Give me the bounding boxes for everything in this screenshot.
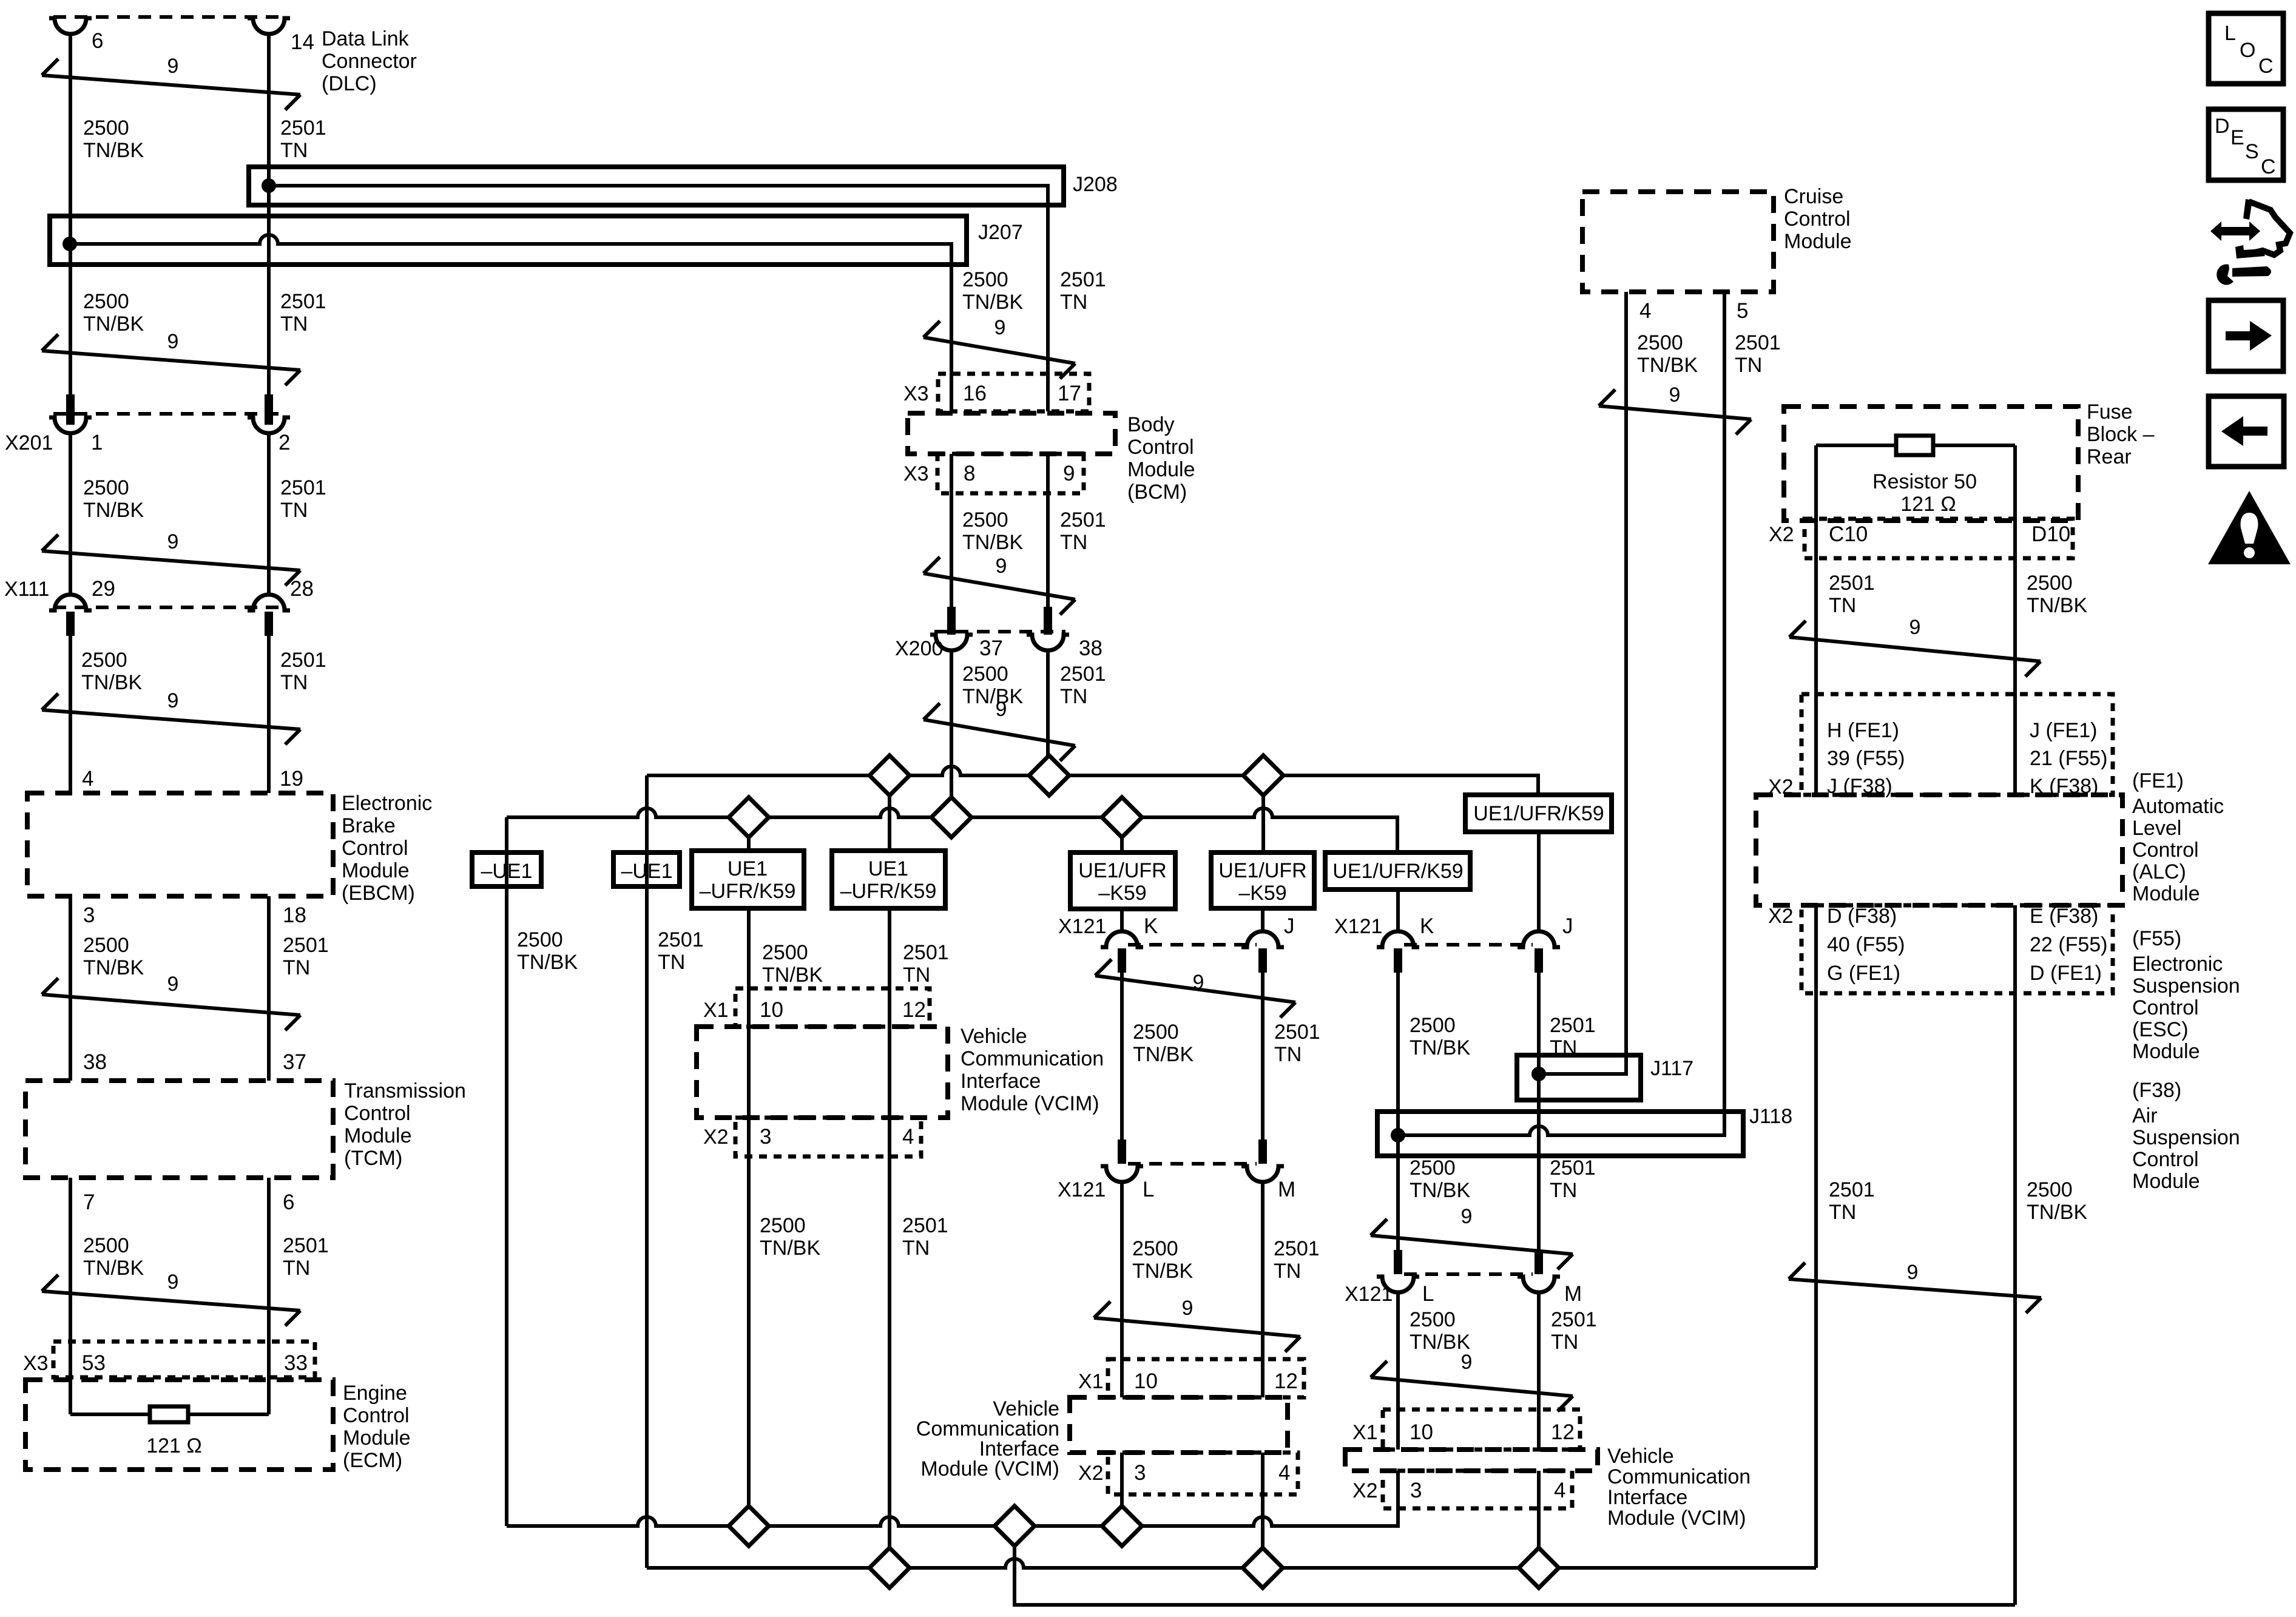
connector X201 dashed line xyxy=(53,412,286,416)
svg-text:K: K xyxy=(1144,914,1158,938)
svg-text:UE1: UE1 xyxy=(728,857,768,880)
splice diamond B1 at 1849 xyxy=(1102,1506,1142,1546)
svg-text:H (FE1): H (FE1) xyxy=(1827,719,1899,742)
svg-text:Engine: Engine xyxy=(343,1382,407,1405)
svg-text:Communication: Communication xyxy=(961,1047,1104,1070)
svg-text:2: 2 xyxy=(279,431,290,454)
connector X1 VCIM1 dotted box xyxy=(735,988,930,1027)
svg-text:2500: 2500 xyxy=(962,268,1008,291)
svg-text:–UE1: –UE1 xyxy=(481,860,532,883)
svg-text:TN: TN xyxy=(280,671,308,694)
svg-text:TN: TN xyxy=(903,964,930,987)
svg-text:9: 9 xyxy=(996,698,1007,721)
connector X121 M cup xyxy=(1241,1166,1284,1182)
net label box UE1/UFR/K59 lower xyxy=(1325,852,1470,890)
svg-text:Connector: Connector xyxy=(322,50,417,73)
connector DLC dashed line xyxy=(53,15,286,19)
connector X2 fuse block dotted box xyxy=(1805,519,2073,558)
svg-text:TN/BK: TN/BK xyxy=(83,499,144,522)
svg-text:D (FE1): D (FE1) xyxy=(2030,962,2102,985)
splice diamond upper bus at 1729 xyxy=(1029,755,1069,795)
svg-text:Electronic: Electronic xyxy=(2132,953,2223,976)
svg-text:Control: Control xyxy=(1127,436,1194,459)
connector X200 pin 37 cup xyxy=(930,635,973,650)
connector X200 dashed line xyxy=(934,630,1065,633)
svg-text:TN: TN xyxy=(283,1257,310,1280)
svg-text:Electronic: Electronic xyxy=(342,792,432,815)
svg-text:121 Ω: 121 Ω xyxy=(1900,493,1956,516)
wire box4 to X121 J xyxy=(1261,908,1264,931)
icon arrow left box xyxy=(2209,396,2284,467)
svg-text:–K59: –K59 xyxy=(1238,882,1286,905)
svg-text:TN: TN xyxy=(1060,685,1087,708)
wire 2501 TN DLC to X201 xyxy=(267,34,271,396)
connector X2 VCIM2 dotted box xyxy=(1108,1453,1298,1494)
svg-text:2500: 2500 xyxy=(2027,1178,2073,1201)
svg-text:2500: 2500 xyxy=(1637,331,1683,354)
svg-text:X111: X111 xyxy=(4,578,49,601)
svg-text:2500: 2500 xyxy=(762,941,808,964)
svg-text:TN/BK: TN/BK xyxy=(83,1257,144,1280)
wire cruise pin 4 down to J117 xyxy=(1624,292,1628,1074)
svg-text:J207: J207 xyxy=(978,221,1023,244)
svg-text:Module: Module xyxy=(344,1124,412,1147)
wire 2500 TN/BK BCM to X200 xyxy=(950,454,953,608)
twisted pair symbol 9 (above VCIM3) xyxy=(1371,1377,1573,1396)
svg-text:TN/BK: TN/BK xyxy=(1410,1036,1470,1059)
svg-text:2500: 2500 xyxy=(83,476,129,499)
splice diamond lower bus at 1849 xyxy=(1102,797,1142,837)
bus B2 2501 bottom horizontal xyxy=(647,1559,1816,1568)
svg-text:TN: TN xyxy=(283,956,310,979)
connector X201 pin 2 stub xyxy=(265,394,273,425)
wire 2501 TN EBCM to TCM xyxy=(267,896,271,1081)
wire 2501 TN fuse to ALC xyxy=(1814,445,1818,795)
svg-text:(ESC): (ESC) xyxy=(2132,1018,2189,1041)
svg-text:Interface: Interface xyxy=(961,1070,1041,1093)
junction J117 dot xyxy=(1531,1067,1546,1081)
svg-text:2501: 2501 xyxy=(283,934,329,957)
svg-text:TN/BK: TN/BK xyxy=(1410,1179,1470,1202)
svg-text:Interface: Interface xyxy=(1607,1486,1687,1509)
module TCM dashed box xyxy=(25,1081,333,1178)
wire box6 to X121 J right xyxy=(1537,832,1541,931)
module VCIM1 dashed box xyxy=(697,1027,948,1118)
connector X111 pin 29 cup xyxy=(49,595,92,610)
wire 2501 TN X201 to X111 xyxy=(267,433,271,595)
svg-text:10: 10 xyxy=(1134,1369,1158,1393)
splice diamond upper bus at 1466 xyxy=(869,755,910,795)
svg-text:Vehicle: Vehicle xyxy=(1607,1445,1674,1468)
wire 2500 TN/BK TCM to ECM xyxy=(69,1178,72,1414)
svg-text:TN/BK: TN/BK xyxy=(962,291,1023,314)
svg-text:X2: X2 xyxy=(1768,905,1794,928)
junction J207 inner wire with hop xyxy=(70,235,951,265)
svg-text:X121: X121 xyxy=(1058,915,1106,938)
twisted pair symbol 9 (cruise) xyxy=(1599,406,1751,419)
wire 2500 TN/BK X121K right down xyxy=(1396,973,1400,1112)
svg-text:Vehicle: Vehicle xyxy=(961,1025,1027,1048)
svg-text:28: 28 xyxy=(290,577,314,601)
connector X200 pin 38 stub xyxy=(1044,607,1052,635)
wire 2501 TN BCM to X200 xyxy=(1046,454,1050,608)
svg-text:9: 9 xyxy=(1461,1205,1473,1228)
wire 2500 TN/BK box1 to VCIM1 xyxy=(747,908,751,1526)
svg-text:J208: J208 xyxy=(1073,173,1118,196)
svg-text:TN/BK: TN/BK xyxy=(760,1237,820,1260)
svg-text:2500: 2500 xyxy=(83,934,129,957)
svg-text:TN: TN xyxy=(280,139,308,162)
svg-text:M: M xyxy=(1278,1178,1295,1201)
svg-text:39 (F55): 39 (F55) xyxy=(1827,747,1905,770)
svg-text:7: 7 xyxy=(83,1190,95,1214)
svg-text:Suspension: Suspension xyxy=(2132,1126,2240,1149)
svg-text:9: 9 xyxy=(1909,616,1921,639)
connector X1 VCIM2 dotted box xyxy=(1108,1359,1304,1397)
svg-text:Fuse: Fuse xyxy=(2087,400,2133,424)
connector X121 M right stub xyxy=(1535,1250,1543,1274)
svg-text:(F55): (F55) xyxy=(2132,927,2181,950)
bus 2501 upper horizontal xyxy=(647,766,1538,795)
wire VCIM2 pin4 to bus B2 xyxy=(1261,1453,1264,1568)
connector X121 K cup xyxy=(1101,931,1143,947)
module ALC dashed box xyxy=(1756,795,2122,905)
svg-text:X121: X121 xyxy=(1058,1178,1106,1201)
svg-text:C10: C10 xyxy=(1829,522,1868,546)
connector X121 L stub xyxy=(1118,1139,1126,1164)
connector X121 K right stub xyxy=(1394,948,1402,973)
wire cruise pin 5 down to J118 xyxy=(1723,292,1726,1135)
svg-text:UE1/UFR/K59: UE1/UFR/K59 xyxy=(1473,802,1604,825)
svg-text:TN/BK: TN/BK xyxy=(1637,354,1698,377)
svg-text:2500: 2500 xyxy=(1410,1014,1456,1037)
svg-text:TN: TN xyxy=(1060,291,1087,314)
svg-text:2501: 2501 xyxy=(658,928,704,951)
svg-text:D10: D10 xyxy=(2031,522,2070,546)
wire UE1-UFR/K59 stub 2 (2501) xyxy=(888,775,891,851)
connector X121 J right stub xyxy=(1535,948,1543,973)
module Fuse Block Rear dashed box xyxy=(1784,407,2078,521)
connector X121 K right cup xyxy=(1377,931,1419,947)
junction J117 box xyxy=(1517,1055,1641,1100)
wire resistor top right xyxy=(1933,444,2015,447)
svg-text:9: 9 xyxy=(167,689,179,712)
svg-text:–UE1: –UE1 xyxy=(621,860,672,883)
svg-text:(EBCM): (EBCM) xyxy=(342,882,415,905)
svg-text:6: 6 xyxy=(92,29,103,53)
twisted pair symbol 9 (below X201) xyxy=(42,551,300,570)
svg-text:9: 9 xyxy=(1063,462,1075,485)
svg-text:C: C xyxy=(2258,55,2274,78)
connector X121 J stub xyxy=(1258,948,1267,973)
bus line3 2500 link to air suspension xyxy=(1015,1526,2015,1605)
svg-text:X2: X2 xyxy=(1352,1479,1378,1502)
svg-text:(TCM): (TCM) xyxy=(344,1147,402,1170)
svg-text:Control: Control xyxy=(2132,1148,2199,1171)
wire 2500 TN/BK through J118 xyxy=(1396,1112,1400,1250)
svg-text:L: L xyxy=(1422,1282,1434,1306)
svg-text:9: 9 xyxy=(167,55,179,78)
svg-text:TN: TN xyxy=(658,951,685,974)
svg-text:Control: Control xyxy=(342,837,408,860)
svg-text:29: 29 xyxy=(92,577,115,601)
connector X2 VCIM1 dotted box xyxy=(735,1118,921,1156)
svg-text:2501: 2501 xyxy=(1551,1308,1597,1331)
svg-text:9: 9 xyxy=(996,555,1007,578)
wire 2500 TN/BK fuse to ALC xyxy=(2013,445,2017,795)
connector X121 J right cup xyxy=(1518,931,1560,947)
svg-text:O: O xyxy=(2240,39,2255,62)
svg-text:2501: 2501 xyxy=(280,476,326,499)
connector X121 L right stub xyxy=(1394,1250,1402,1274)
connector X121 L/M dashed line middle xyxy=(1128,1162,1257,1166)
svg-text:L: L xyxy=(1143,1178,1154,1201)
connector X121 L cup xyxy=(1101,1166,1143,1182)
svg-text:X3: X3 xyxy=(903,462,929,485)
icon arrow right box xyxy=(2209,300,2283,371)
wire 2500 TN/BK X111 to EBCM xyxy=(69,636,72,793)
svg-text:9: 9 xyxy=(1907,1261,1919,1284)
svg-text:Air: Air xyxy=(2132,1104,2158,1127)
splice diamond lower bus at 1568 xyxy=(931,797,971,837)
svg-text:TN/BK: TN/BK xyxy=(83,956,144,979)
svg-text:2500: 2500 xyxy=(760,1214,806,1237)
wire ECM internal resistor left xyxy=(70,1413,150,1416)
twisted pair symbol 9 (below BCM) xyxy=(923,573,1075,599)
wire VCIM2 pin3 to bus B1 xyxy=(1120,1453,1124,1526)
svg-text:TN/BK: TN/BK xyxy=(2027,594,2087,617)
svg-text:38: 38 xyxy=(1079,636,1102,660)
wire 2501 TN X121J down xyxy=(1261,973,1264,1141)
twisted pair symbol 9 (above bus) xyxy=(923,720,1075,746)
wire resistor top left xyxy=(1816,444,1896,447)
svg-text:2501: 2501 xyxy=(1829,572,1875,595)
svg-text:2501: 2501 xyxy=(280,649,326,672)
svg-text:4: 4 xyxy=(82,767,93,791)
svg-text:2501: 2501 xyxy=(1060,508,1106,532)
svg-text:TN: TN xyxy=(1829,1201,1856,1224)
svg-text:G (FE1): G (FE1) xyxy=(1827,962,1900,985)
svg-text:Level: Level xyxy=(2132,817,2181,840)
svg-text:9: 9 xyxy=(994,316,1006,339)
wire UE1-UFR/K59 stub 1 (2500) xyxy=(747,817,751,851)
svg-text:Control: Control xyxy=(1784,208,1851,231)
net label box UE1 -UFR/K59 second xyxy=(832,851,945,908)
twisted pair symbol 9 (DLC) xyxy=(42,75,300,95)
wire 2500 TN/BK to VCIM3 pin10 xyxy=(1396,1292,1400,1450)
svg-text:(F38): (F38) xyxy=(2132,1079,2181,1102)
svg-text:Body: Body xyxy=(1127,413,1175,436)
svg-text:E (F38): E (F38) xyxy=(2030,905,2098,928)
svg-text:Resistor 50: Resistor 50 xyxy=(1872,470,1977,493)
svg-text:2501: 2501 xyxy=(1060,663,1106,686)
connector DLC cup pin 6 xyxy=(49,18,92,34)
twisted pair symbol 9 (EBCM-TCM) xyxy=(42,994,300,1015)
svg-text:9: 9 xyxy=(167,1271,179,1294)
svg-text:19: 19 xyxy=(280,767,303,791)
svg-text:Suspension: Suspension xyxy=(2132,974,2240,998)
svg-text:TN/BK: TN/BK xyxy=(962,531,1023,554)
svg-text:12: 12 xyxy=(1551,1420,1575,1444)
svg-text:Block –: Block – xyxy=(2087,423,2155,446)
svg-text:TN: TN xyxy=(1829,594,1856,617)
svg-text:2500: 2500 xyxy=(1410,1308,1456,1331)
wire -UE1 drop 2 (2501 TN) xyxy=(645,775,649,1568)
svg-text:14: 14 xyxy=(291,30,314,54)
svg-text:9: 9 xyxy=(167,330,179,353)
svg-text:J: J xyxy=(1562,914,1573,938)
svg-text:Module (VCIM): Module (VCIM) xyxy=(1607,1507,1746,1530)
svg-text:Control: Control xyxy=(343,1404,410,1427)
connector X111 pin 29 stub xyxy=(66,612,75,636)
wire 2500 TN/BK DLC to X201 xyxy=(69,34,72,396)
wire 2500 TN/BK X200 to bus xyxy=(950,650,953,817)
twisted pair symbol 9 (far right bottom) xyxy=(1789,1279,2041,1298)
net label box UE1/UFR/K59 raised xyxy=(1465,795,1612,832)
connector X121 L/M dashed line right xyxy=(1404,1272,1533,1276)
svg-text:Module: Module xyxy=(2132,1170,2200,1193)
svg-text:9: 9 xyxy=(167,530,179,553)
connector X201 pin 1 stub xyxy=(66,394,75,425)
wire 2500 TN/BK to VCIM2 pin10 xyxy=(1120,1182,1124,1397)
icon DESC box xyxy=(2209,109,2283,180)
svg-text:–UFR/K59: –UFR/K59 xyxy=(840,880,937,903)
svg-text:2501: 2501 xyxy=(902,1214,948,1237)
connector X121 L right cup xyxy=(1377,1277,1419,1292)
net label box UE1/UFR -K59 first xyxy=(1070,852,1175,909)
svg-text:2500: 2500 xyxy=(1410,1156,1456,1180)
connector X121 K/J dashed line left pair xyxy=(1128,943,1257,947)
splice diamond B1 at 1234 xyxy=(729,1506,769,1546)
svg-text:33: 33 xyxy=(284,1351,308,1375)
svg-text:3: 3 xyxy=(1410,1479,1422,1502)
svg-text:121 Ω: 121 Ω xyxy=(146,1434,202,1457)
connector X200 pin 37 stub xyxy=(947,607,956,635)
svg-text:2501: 2501 xyxy=(1550,1156,1596,1180)
icon warning triangle xyxy=(2208,491,2291,564)
svg-text:1: 1 xyxy=(91,431,103,454)
connector X111 pin 28 cup xyxy=(248,595,290,610)
wire 2501 TN ESC down to B2 xyxy=(1814,905,1818,1568)
svg-text:X2: X2 xyxy=(703,1126,729,1149)
connector X121 M right cup xyxy=(1518,1277,1560,1292)
svg-text:E: E xyxy=(2230,126,2244,149)
svg-text:TN/BK: TN/BK xyxy=(83,312,144,336)
connector X201 pin 2 cup xyxy=(248,417,290,433)
wire 2501 TN X200 to bus xyxy=(1046,650,1050,775)
svg-text:3: 3 xyxy=(760,1125,771,1149)
svg-text:TN/BK: TN/BK xyxy=(1132,1260,1193,1283)
bus B1 2500 bottom horizontal xyxy=(507,1471,1398,1526)
junction J208 box xyxy=(249,167,1064,205)
svg-text:Module: Module xyxy=(1784,230,1852,253)
svg-text:2500: 2500 xyxy=(517,928,563,951)
junction J118 dot xyxy=(1391,1128,1405,1143)
wire box3 to X121 K xyxy=(1120,909,1124,931)
connector X200 pin 38 cup xyxy=(1027,635,1069,650)
svg-text:2500: 2500 xyxy=(1132,1237,1178,1260)
svg-text:L: L xyxy=(2224,22,2236,45)
svg-text:X200: X200 xyxy=(895,637,943,660)
svg-text:TN/BK: TN/BK xyxy=(83,139,144,162)
junction J208 dot xyxy=(262,178,276,193)
svg-text:X121: X121 xyxy=(1334,915,1382,938)
svg-text:TN/BK: TN/BK xyxy=(1133,1043,1194,1066)
svg-text:TN/BK: TN/BK xyxy=(962,685,1023,708)
svg-text:8: 8 xyxy=(964,462,975,485)
wire 2500 TN/BK ESC down to line3 xyxy=(2013,905,2017,1605)
connector X2 VCIM3 dotted box xyxy=(1383,1471,1572,1508)
svg-text:2501: 2501 xyxy=(1060,268,1106,291)
wire 2501 TN box2 to VCIM1 xyxy=(888,908,891,1568)
svg-text:Communication: Communication xyxy=(1607,1465,1751,1488)
svg-text:D (F38): D (F38) xyxy=(1827,905,1897,928)
svg-text:2501: 2501 xyxy=(280,290,326,313)
twisted pair symbol 9 (below J207) xyxy=(42,351,300,370)
connector X111 pin 28 stub xyxy=(265,612,273,636)
connector X111 dashed line xyxy=(53,606,286,609)
svg-text:UE1/UFR/K59: UE1/UFR/K59 xyxy=(1332,860,1463,883)
svg-text:10: 10 xyxy=(760,998,783,1022)
svg-text:53: 53 xyxy=(82,1351,106,1375)
svg-text:2500: 2500 xyxy=(2027,572,2073,595)
connector DLC cup pin 14 xyxy=(248,18,290,34)
svg-text:40 (F55): 40 (F55) xyxy=(1827,933,1905,956)
svg-text:TN: TN xyxy=(902,1237,930,1260)
connector X3 16/17 dotted box xyxy=(938,374,1089,411)
svg-text:37: 37 xyxy=(979,636,1003,660)
svg-text:18: 18 xyxy=(283,903,306,927)
resistor 50 body xyxy=(1896,436,1933,455)
svg-text:Automatic: Automatic xyxy=(2132,795,2224,818)
connector X121 J cup xyxy=(1241,931,1284,947)
connector X2 ALC upper dotted box xyxy=(1801,694,2113,795)
svg-text:16: 16 xyxy=(963,382,987,405)
svg-text:17: 17 xyxy=(1058,382,1081,405)
bus 2500 lower horizontal xyxy=(507,808,1397,852)
junction J207 box xyxy=(50,216,967,265)
svg-text:(BCM): (BCM) xyxy=(1127,481,1187,504)
svg-text:2500: 2500 xyxy=(81,649,127,672)
svg-text:3: 3 xyxy=(83,903,95,927)
splice diamond B1 at 1672 xyxy=(994,1506,1035,1546)
svg-text:X201: X201 xyxy=(5,431,53,454)
svg-text:X121: X121 xyxy=(1345,1283,1393,1306)
svg-text:2500: 2500 xyxy=(1133,1021,1179,1044)
svg-text:TN: TN xyxy=(1274,1043,1302,1066)
connector X1 VCIM3 dotted box xyxy=(1383,1409,1580,1450)
svg-text:Module: Module xyxy=(2132,1040,2200,1063)
svg-text:2500: 2500 xyxy=(962,663,1008,686)
wire 2501 TN to VCIM2 pin12 xyxy=(1261,1182,1264,1397)
svg-text:Brake: Brake xyxy=(342,814,396,837)
svg-text:TN/BK: TN/BK xyxy=(81,671,142,694)
splice diamond B2 at 2081 xyxy=(1243,1548,1283,1588)
svg-text:K: K xyxy=(1420,914,1434,938)
module VCIM3 dashed box xyxy=(1345,1450,1598,1471)
svg-text:2500: 2500 xyxy=(962,508,1008,532)
svg-text:22 (F55): 22 (F55) xyxy=(2030,933,2108,956)
connector X201 pin 1 cup xyxy=(49,417,92,433)
svg-text:3: 3 xyxy=(1134,1461,1146,1485)
splice diamond B2 at 2536 xyxy=(1519,1548,1559,1588)
svg-text:(FE1): (FE1) xyxy=(2132,769,2184,792)
module VCIM2 dashed box xyxy=(1070,1397,1288,1453)
svg-text:5: 5 xyxy=(1737,299,1748,323)
svg-text:10: 10 xyxy=(1410,1420,1433,1444)
wire UE1/UFR-K59 stub 3 (2500) xyxy=(1120,817,1124,852)
svg-text:X1: X1 xyxy=(703,999,729,1022)
